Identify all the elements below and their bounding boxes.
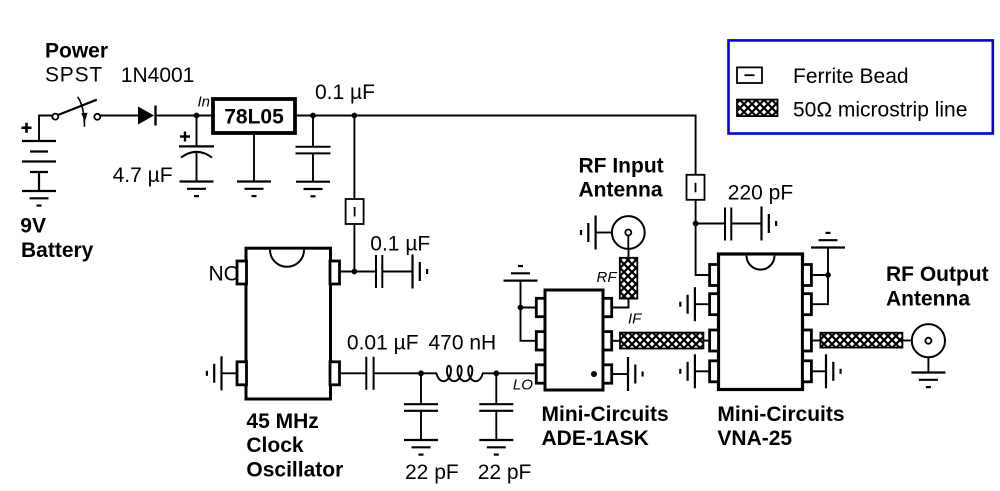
svg-text:Clock: Clock <box>246 434 304 457</box>
svg-text:1N4001: 1N4001 <box>121 64 195 87</box>
svg-text:Oscillator: Oscillator <box>246 459 343 482</box>
svg-text:RF Output: RF Output <box>886 263 989 286</box>
svg-text:Power: Power <box>45 40 108 63</box>
svg-text:Antenna: Antenna <box>886 288 970 311</box>
svg-text:NC: NC <box>209 263 239 286</box>
svg-text:RF Input: RF Input <box>579 154 664 177</box>
svg-text:45 MHz: 45 MHz <box>246 410 318 433</box>
svg-text:22 pF: 22 pF <box>405 461 459 484</box>
svg-text:220 pF: 220 pF <box>728 182 793 205</box>
svg-text:0.01 µF: 0.01 µF <box>347 332 419 355</box>
svg-text:Mini-Circuits: Mini-Circuits <box>542 403 669 426</box>
svg-text:RF: RF <box>597 269 618 286</box>
svg-text:Battery: Battery <box>21 239 94 262</box>
svg-text:IF: IF <box>628 311 642 328</box>
svg-text:4.7 µF: 4.7 µF <box>113 164 173 187</box>
svg-text:Antenna: Antenna <box>579 179 663 202</box>
svg-text:VNA-25: VNA-25 <box>717 427 792 450</box>
svg-text:Mini-Circuits: Mini-Circuits <box>717 403 844 426</box>
svg-text:78L05: 78L05 <box>224 105 284 128</box>
svg-text:LO: LO <box>513 377 533 394</box>
svg-text:ADE-1ASK: ADE-1ASK <box>542 427 649 450</box>
svg-text:0.1 µF: 0.1 µF <box>370 232 430 255</box>
svg-text:22 pF: 22 pF <box>478 461 532 484</box>
svg-text:Ferrite Bead: Ferrite Bead <box>793 65 909 88</box>
svg-text:0.1 µF: 0.1 µF <box>315 81 375 104</box>
svg-text:470 nH: 470 nH <box>429 332 497 355</box>
svg-text:SPST: SPST <box>45 64 103 87</box>
svg-text:9V: 9V <box>20 214 46 237</box>
svg-text:In: In <box>198 94 211 111</box>
svg-text:50Ω microstrip line: 50Ω microstrip line <box>793 98 967 121</box>
